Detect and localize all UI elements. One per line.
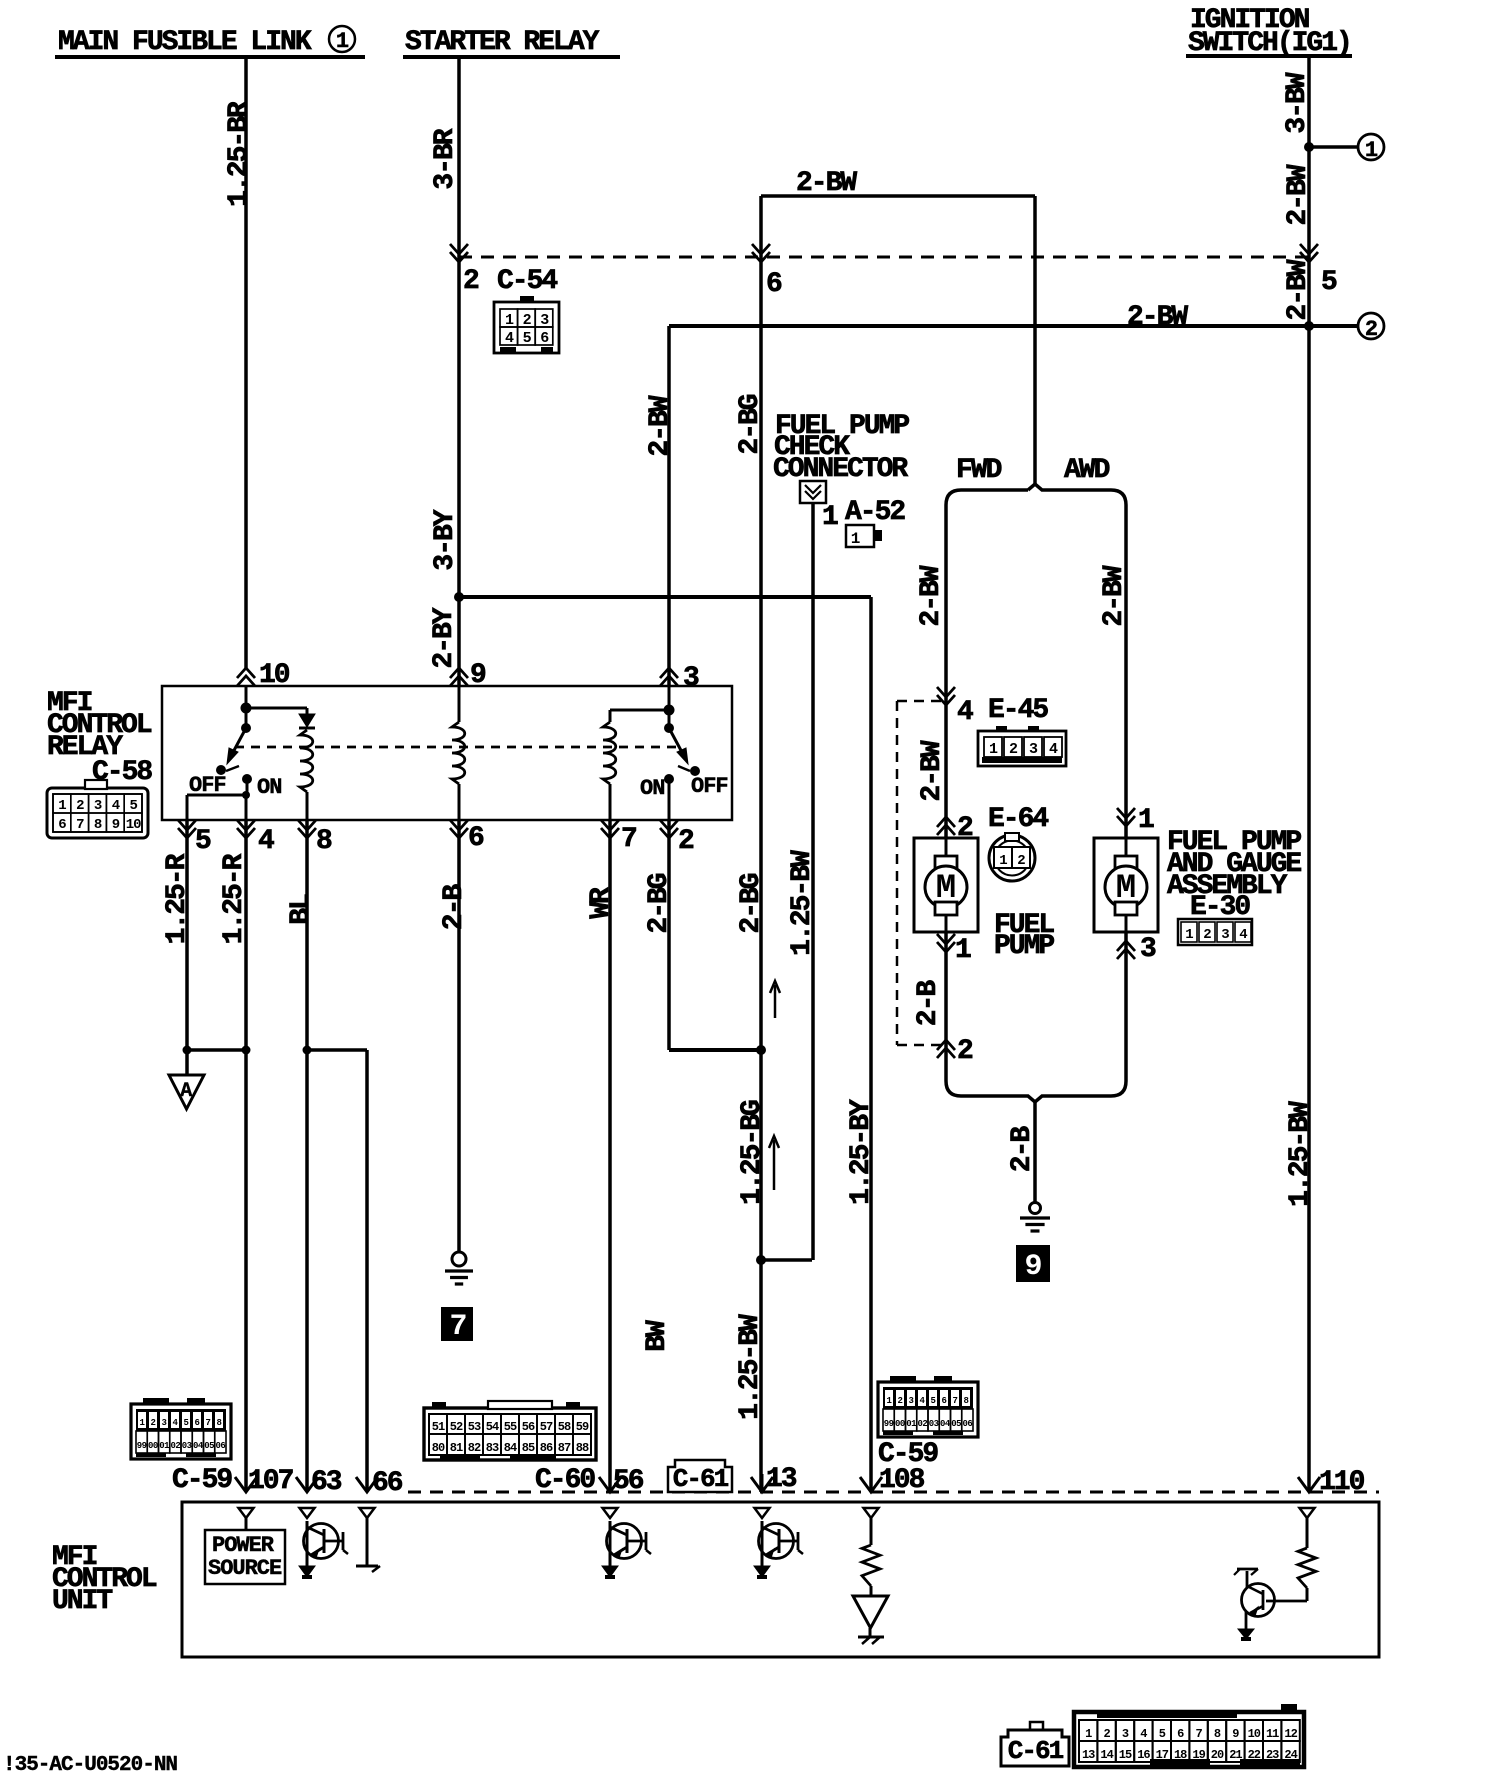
svg-text:7: 7 xyxy=(76,817,84,833)
svg-text:6: 6 xyxy=(468,823,484,854)
svg-text:BL: BL xyxy=(286,894,317,925)
svg-text:13: 13 xyxy=(766,1464,797,1495)
svg-text:2-BW: 2-BW xyxy=(1283,259,1314,320)
svg-text:3: 3 xyxy=(1029,741,1038,758)
svg-text:8: 8 xyxy=(1214,1727,1221,1741)
svg-text:2: 2 xyxy=(151,1418,156,1428)
svg-text:20: 20 xyxy=(1211,1748,1224,1762)
svg-text:5: 5 xyxy=(1159,1727,1166,1741)
svg-text:9: 9 xyxy=(470,660,486,691)
svg-text:8: 8 xyxy=(94,817,102,833)
svg-text:00: 00 xyxy=(895,1419,905,1429)
svg-text:1.25-BW: 1.25-BW xyxy=(1285,1101,1316,1207)
svg-text:2-B: 2-B xyxy=(1007,1126,1038,1173)
svg-text:81: 81 xyxy=(450,1441,463,1455)
svg-text:56: 56 xyxy=(613,1466,644,1497)
svg-text:C-60: C-60 xyxy=(535,1465,595,1496)
svg-text:05: 05 xyxy=(204,1441,214,1451)
svg-text:14: 14 xyxy=(1100,1748,1113,1762)
svg-text:107: 107 xyxy=(248,1466,293,1497)
svg-text:1: 1 xyxy=(58,798,66,814)
svg-text:110: 110 xyxy=(1319,1467,1365,1498)
svg-text:86: 86 xyxy=(540,1441,553,1455)
svg-text:1: 1 xyxy=(955,935,971,966)
svg-text:99: 99 xyxy=(137,1441,147,1451)
svg-text:01: 01 xyxy=(906,1419,917,1429)
svg-text:1: 1 xyxy=(822,502,838,533)
svg-text:7: 7 xyxy=(621,824,636,855)
svg-text:WR: WR xyxy=(586,887,617,919)
svg-text:108: 108 xyxy=(879,1465,925,1496)
svg-text:A: A xyxy=(180,1080,192,1103)
svg-text:2: 2 xyxy=(463,266,479,297)
svg-text:8: 8 xyxy=(217,1418,222,1428)
svg-text:7: 7 xyxy=(953,1396,958,1406)
svg-text:1: 1 xyxy=(989,741,998,758)
svg-text:1: 1 xyxy=(1185,927,1193,943)
svg-text:9: 9 xyxy=(112,817,120,833)
svg-text:66: 66 xyxy=(372,1468,403,1499)
svg-text:9: 9 xyxy=(1232,1727,1239,1741)
svg-text:9: 9 xyxy=(1024,1250,1041,1284)
svg-text:C-59: C-59 xyxy=(172,1465,232,1496)
svg-text:3-BW: 3-BW xyxy=(1282,72,1313,133)
svg-text:C-61: C-61 xyxy=(1008,1736,1064,1766)
svg-text:10: 10 xyxy=(126,817,141,833)
svg-text:01: 01 xyxy=(159,1441,170,1451)
svg-text:52: 52 xyxy=(450,1420,463,1434)
svg-text:4: 4 xyxy=(258,826,274,857)
svg-text:1: 1 xyxy=(851,530,860,548)
svg-text:15: 15 xyxy=(1119,1748,1132,1762)
svg-text:E-64: E-64 xyxy=(988,804,1048,835)
svg-text:57: 57 xyxy=(540,1420,553,1434)
svg-text:2: 2 xyxy=(76,798,84,814)
svg-text:04: 04 xyxy=(193,1441,204,1451)
svg-text:1: 1 xyxy=(1138,805,1154,836)
svg-text:2-BW: 2-BW xyxy=(645,395,676,456)
svg-text:2: 2 xyxy=(1365,317,1377,342)
svg-text:3-BR: 3-BR xyxy=(430,128,461,189)
svg-text:3: 3 xyxy=(162,1418,167,1428)
svg-text:2: 2 xyxy=(1103,1727,1110,1741)
svg-text:06: 06 xyxy=(962,1419,972,1429)
svg-text:C-54: C-54 xyxy=(497,266,557,297)
svg-text:2-BW: 2-BW xyxy=(917,740,948,801)
svg-text:6: 6 xyxy=(942,1396,947,1406)
svg-text:1.25-BW: 1.25-BW xyxy=(787,850,818,956)
svg-text:58: 58 xyxy=(558,1420,571,1434)
svg-text:1.25-BR: 1.25-BR xyxy=(224,101,255,207)
svg-text:UNIT: UNIT xyxy=(52,1586,112,1617)
svg-text:2: 2 xyxy=(678,826,694,857)
svg-text:55: 55 xyxy=(504,1420,517,1434)
svg-text:1.25-BY: 1.25-BY xyxy=(846,1099,877,1205)
svg-text:6: 6 xyxy=(195,1418,200,1428)
svg-text:54: 54 xyxy=(486,1420,499,1434)
svg-text:2: 2 xyxy=(1203,927,1211,943)
svg-text:4: 4 xyxy=(1239,927,1247,943)
svg-text:84: 84 xyxy=(504,1441,517,1455)
svg-text:2-B: 2-B xyxy=(439,884,470,931)
svg-text:POWER: POWER xyxy=(212,1533,275,1558)
svg-text:6: 6 xyxy=(58,817,66,833)
svg-text:00: 00 xyxy=(148,1441,158,1451)
svg-text:02: 02 xyxy=(917,1419,927,1429)
svg-text:8: 8 xyxy=(964,1396,969,1406)
svg-text:1.25-BW: 1.25-BW xyxy=(735,1314,766,1420)
svg-text:03: 03 xyxy=(929,1419,939,1429)
svg-text:STARTER RELAY: STARTER RELAY xyxy=(405,27,600,58)
svg-text:6: 6 xyxy=(766,269,782,300)
svg-text:ON: ON xyxy=(257,775,281,800)
svg-text:8: 8 xyxy=(316,826,332,857)
svg-text:59: 59 xyxy=(576,1420,589,1434)
svg-text:56: 56 xyxy=(522,1420,535,1434)
svg-text:PUMP: PUMP xyxy=(994,931,1054,962)
svg-text:5: 5 xyxy=(931,1396,936,1406)
svg-text:5: 5 xyxy=(523,330,532,347)
svg-text:03: 03 xyxy=(182,1441,192,1451)
svg-text:4: 4 xyxy=(112,798,120,814)
svg-text:2: 2 xyxy=(957,1036,973,1067)
svg-text:SOURCE: SOURCE xyxy=(208,1556,282,1581)
svg-text:12: 12 xyxy=(1284,1727,1297,1741)
svg-text:3: 3 xyxy=(1140,934,1156,965)
svg-text:06: 06 xyxy=(215,1441,225,1451)
svg-text:10: 10 xyxy=(259,660,290,691)
svg-text:MAIN FUSIBLE LINK: MAIN FUSIBLE LINK xyxy=(58,27,312,58)
svg-text:CONNECTOR: CONNECTOR xyxy=(773,454,908,485)
svg-text:3: 3 xyxy=(909,1396,914,1406)
svg-text:2: 2 xyxy=(1017,853,1025,869)
svg-text:5: 5 xyxy=(1321,267,1337,298)
svg-text:2-BW: 2-BW xyxy=(1127,302,1188,333)
svg-text:3-BY: 3-BY xyxy=(430,509,461,570)
svg-text:3: 3 xyxy=(94,798,102,814)
svg-text:2-BG: 2-BG xyxy=(735,394,766,454)
svg-text:2-BW: 2-BW xyxy=(1099,565,1130,626)
svg-text:85: 85 xyxy=(522,1441,535,1455)
svg-text:05: 05 xyxy=(951,1419,961,1429)
svg-text:7: 7 xyxy=(449,1310,466,1344)
svg-text:1.25-BG: 1.25-BG xyxy=(737,1100,768,1205)
svg-text:4: 4 xyxy=(1140,1727,1147,1741)
svg-text:4: 4 xyxy=(957,697,973,728)
svg-text:7: 7 xyxy=(1195,1727,1202,1741)
svg-text:1: 1 xyxy=(999,853,1007,869)
svg-text:BW: BW xyxy=(642,1320,673,1352)
svg-text:87: 87 xyxy=(558,1441,571,1455)
svg-text:63: 63 xyxy=(311,1467,342,1498)
svg-text:A-52: A-52 xyxy=(845,497,905,528)
svg-text:4: 4 xyxy=(505,330,514,347)
svg-text:!35-AC-U0520-NN: !35-AC-U0520-NN xyxy=(3,1754,177,1777)
svg-text:C-61: C-61 xyxy=(673,1464,729,1494)
svg-text:3: 3 xyxy=(1122,1727,1129,1741)
svg-text:5: 5 xyxy=(195,826,211,857)
svg-text:2-BY: 2-BY xyxy=(429,607,460,668)
svg-text:ON: ON xyxy=(640,776,664,801)
svg-text:2-BG: 2-BG xyxy=(736,873,767,933)
svg-text:51: 51 xyxy=(432,1420,445,1434)
svg-text:16: 16 xyxy=(1137,1748,1150,1762)
svg-text:11: 11 xyxy=(1266,1727,1279,1741)
svg-text:1: 1 xyxy=(1365,138,1378,163)
svg-text:5: 5 xyxy=(129,798,137,814)
svg-text:1: 1 xyxy=(336,29,349,54)
svg-text:83: 83 xyxy=(486,1441,499,1455)
svg-text:E-45: E-45 xyxy=(988,695,1048,726)
svg-text:FWD: FWD xyxy=(956,455,1002,486)
svg-text:AWD: AWD xyxy=(1064,455,1110,486)
svg-text:2-BW: 2-BW xyxy=(1283,164,1314,225)
svg-text:53: 53 xyxy=(468,1420,481,1434)
svg-text:82: 82 xyxy=(468,1441,481,1455)
svg-text:88: 88 xyxy=(576,1441,589,1455)
svg-text:2: 2 xyxy=(898,1396,903,1406)
svg-text:2-BW: 2-BW xyxy=(916,565,947,626)
svg-text:1: 1 xyxy=(1085,1727,1092,1741)
svg-text:04: 04 xyxy=(940,1419,951,1429)
svg-text:OFF: OFF xyxy=(691,774,728,799)
svg-text:3: 3 xyxy=(1221,927,1229,943)
svg-text:7: 7 xyxy=(206,1418,211,1428)
svg-text:99: 99 xyxy=(884,1419,894,1429)
svg-text:4: 4 xyxy=(1049,741,1058,758)
svg-text:5: 5 xyxy=(184,1418,189,1428)
svg-text:6: 6 xyxy=(540,330,549,347)
svg-text:2: 2 xyxy=(1009,741,1018,758)
svg-text:3: 3 xyxy=(683,663,699,694)
svg-text:10: 10 xyxy=(1248,1727,1261,1741)
svg-text:6: 6 xyxy=(1177,1727,1184,1741)
svg-text:02: 02 xyxy=(170,1441,180,1451)
svg-text:2-B: 2-B xyxy=(913,980,944,1027)
svg-text:80: 80 xyxy=(432,1441,445,1455)
svg-text:13: 13 xyxy=(1082,1748,1095,1762)
